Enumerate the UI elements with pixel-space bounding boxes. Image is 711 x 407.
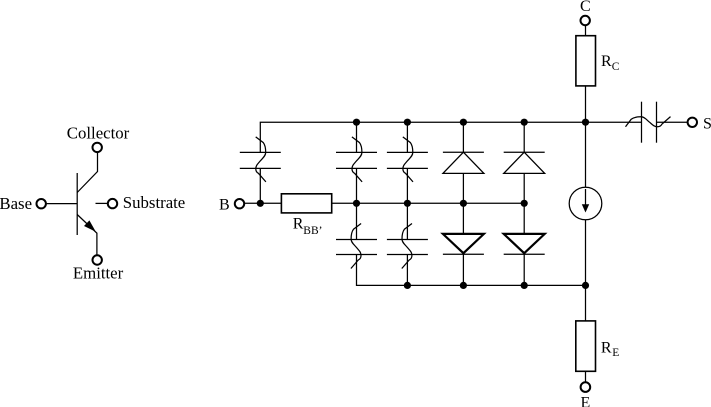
terminal Collector [93,143,102,152]
diode D4 [504,234,545,254]
svg-text:E: E [581,394,591,407]
wire col5 bottom lead [523,254,525,285]
label C [580,0,591,15]
terminal B [235,199,244,208]
terminal Substrate [108,199,117,208]
wire col5 mid lead [523,173,525,203]
wire col2 top lead [356,122,358,152]
junction bottom rail 4 [582,282,589,289]
wire top rail [260,122,585,152]
svg-text:B: B [219,196,230,213]
wire S cap to S [657,121,688,123]
svg-text:R: R [293,215,304,232]
label Substrate [123,193,185,212]
label Base [0,194,32,213]
svg-text:Collector: Collector [67,124,130,143]
wire top rail to S cap [586,121,642,123]
label B [219,196,230,213]
terminal E [581,382,591,392]
label Emitter [73,264,124,283]
svg-text:Substrate: Substrate [123,193,185,212]
label RE [601,340,619,360]
svg-text:Base: Base [0,194,32,213]
current source ICT [569,187,602,220]
junction top rail 3 [460,119,467,126]
junction mid rail 3 [460,200,467,207]
capacitor CSUB (nonlinear) [626,102,671,143]
wire col3 top lead [406,122,408,152]
diode D2 [504,152,545,173]
junction bottom rail 3 [521,282,528,289]
wire C to RC [585,25,587,36]
label RBB' [293,215,323,237]
wire middle rail [332,202,525,204]
label RC [601,53,620,73]
capacitor C2 (nonlinear) [336,137,377,182]
svg-text:Emitter: Emitter [73,264,124,283]
diode D3 [443,234,484,254]
wire col4 bottom lead [462,254,464,285]
wire col3 mid lead [406,168,408,239]
svg-text:BB’: BB’ [303,225,322,237]
junction mid rail 4 [521,200,528,207]
wire col2 mid lead [356,168,358,239]
wire col4 top lead [462,122,464,152]
svg-text:S: S [703,116,711,133]
terminal S [688,118,697,127]
diode D1 [443,152,484,173]
wire bottom rail [357,255,586,286]
junction top rail 4 [521,119,528,126]
svg-text:R: R [601,340,612,357]
svg-text:E: E [612,347,619,359]
svg-text:R: R [601,53,612,70]
junction B node [257,200,264,207]
wire substrate stub [96,202,108,204]
junction mid rail 2 [404,200,411,207]
wire col4 mid lead [462,173,464,203]
terminal Base [37,199,46,208]
label E [581,394,591,407]
wire RC to current source [585,86,587,187]
wire B to RBB [244,202,281,204]
label S [703,116,711,133]
label Collector [67,124,130,143]
junction top rail 1 [353,119,360,126]
resistor RBB' [281,194,331,213]
wire col5 top lead [523,122,525,152]
junction bottom rail 2 [460,282,467,289]
junction top rail 5 [582,119,589,126]
transistor Q1 [77,152,97,255]
wire current source to bottom rail [585,220,587,321]
svg-text:C: C [612,61,620,73]
capacitor C4 (nonlinear) [387,137,428,182]
junction top rail 2 [404,119,411,126]
resistor RC [576,36,596,86]
svg-text:C: C [580,0,591,15]
capacitor CBE1 (nonlinear) [240,137,281,182]
wire col4 mid2 lead [462,203,464,234]
terminal C [581,16,590,25]
junction bottom rail 1 [404,282,411,289]
wire col3 bottom lead [406,255,408,286]
terminal Emitter [93,255,102,264]
capacitor C5 (nonlinear) [387,224,428,269]
wire col5 mid2 lead [523,203,525,234]
resistor RE [576,321,596,371]
wire cap1 lower lead [259,168,261,203]
capacitor C3 (nonlinear) [336,224,377,269]
wire RE to E [585,371,587,382]
wire base [47,203,78,205]
junction mid rail 1 [353,200,360,207]
